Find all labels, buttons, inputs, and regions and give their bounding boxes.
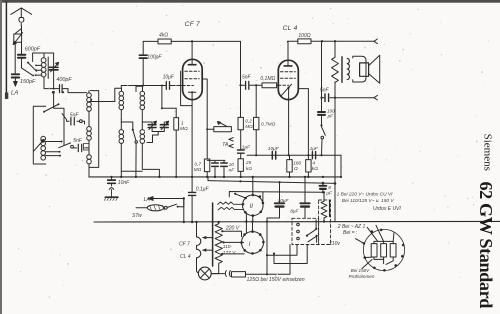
heater bump CL4 <box>197 249 201 258</box>
svg-text:Siemens: Siemens <box>482 134 494 171</box>
svg-text:Prüfstimmen: Prüfstimmen <box>349 274 375 279</box>
resistor 0,7MOhm 2 <box>254 117 259 129</box>
svg-text:MΩ: MΩ <box>194 167 202 173</box>
svg-text:MΩ: MΩ <box>180 126 188 132</box>
voltage selector dashed box <box>292 218 319 244</box>
coil 2 loops a <box>119 91 124 96</box>
heater bump CF7 <box>197 237 201 246</box>
svg-text:10μF: 10μF <box>278 198 290 204</box>
tap arrow upper <box>206 237 213 239</box>
svg-text:pF: pF <box>327 114 335 119</box>
socket II pins <box>242 194 265 217</box>
wire antenna split <box>15 26 21 34</box>
decouple wire bus to line <box>191 177 193 222</box>
svg-text:10: 10 <box>229 162 235 168</box>
lamp feed wire <box>211 245 290 275</box>
junction dots top <box>321 40 323 42</box>
primary shunt resistor <box>334 41 336 57</box>
scan top bar <box>0 0 500 3</box>
TA jack 1 <box>229 138 233 141</box>
tie line coil bottoms <box>121 170 142 172</box>
arrester arrow <box>13 33 22 45</box>
antenna coil <box>43 53 45 58</box>
capacitor 600pF <box>18 55 26 58</box>
resistor 0,2MOhm <box>238 117 243 129</box>
CF7 cathode lead <box>191 92 193 177</box>
CF7 anode lead <box>191 41 193 64</box>
CL4 beam diagonal <box>281 84 291 95</box>
dc link line D <box>208 181 335 184</box>
wire down from top <box>321 41 323 97</box>
wire LA node down <box>183 199 185 223</box>
svg-text:10nF: 10nF <box>118 180 130 186</box>
speaker terminal bottom <box>374 95 377 100</box>
capacitor 5nF band2 <box>73 147 86 149</box>
svg-text:Ω: Ω <box>294 166 298 172</box>
trimmer 400pF <box>53 53 55 67</box>
grid wire to CF7 <box>121 85 163 87</box>
svg-text:110v: 110v <box>329 241 340 247</box>
selector contacts <box>297 223 300 226</box>
top wire A2 <box>311 40 374 42</box>
socket lever left <box>355 239 364 244</box>
coil 1 loops a <box>87 93 92 98</box>
antenna socket LA <box>158 198 184 200</box>
coil 3 stem <box>142 110 152 122</box>
svg-text:62 GW Standard: 62 GW Standard <box>476 182 496 309</box>
electrolytic 10uF <box>267 182 280 274</box>
scan fold blob <box>5 93 8 100</box>
wire 5nF to coil1 <box>87 147 90 149</box>
svg-text:100pF: 100pF <box>147 54 162 60</box>
resistor 0,1MOhm grid <box>262 83 277 88</box>
svg-text:600pF: 600pF <box>25 46 41 52</box>
resistor 0,7M cathode <box>204 159 209 172</box>
socket I top lead <box>252 222 254 232</box>
svg-text:0,2: 0,2 <box>245 119 252 125</box>
socket II circle <box>243 195 264 216</box>
svg-text:Bei 150V: Bei 150V <box>351 268 371 273</box>
CF7 grids dashed <box>185 70 199 72</box>
svg-text:125Ω bei 150V einsetzen: 125Ω bei 150V einsetzen <box>247 277 305 283</box>
svg-text:5nF: 5nF <box>242 75 252 81</box>
svg-text:180: 180 <box>293 161 301 167</box>
ground symbol <box>105 196 118 198</box>
socket top bar <box>374 241 393 243</box>
svg-text:0,7MΩ: 0,7MΩ <box>261 122 276 128</box>
feedback chain 100pF <box>321 98 323 112</box>
svg-text:4: 4 <box>312 161 315 167</box>
CF7 cathode <box>188 91 196 93</box>
band switch lever mid <box>59 143 71 148</box>
scan fold line left <box>5 2 7 96</box>
svg-text:Bei = :: Bei = : <box>343 230 358 236</box>
tube CL4 envelope <box>278 60 298 99</box>
socket pins <box>363 229 405 272</box>
wire trimmer to detector <box>53 70 55 89</box>
trimmer cap A <box>148 125 156 128</box>
capacitor 10uF electrolytic <box>272 151 275 159</box>
svg-text:150pF: 150pF <box>20 79 36 85</box>
coil bottom connect wire <box>44 78 54 89</box>
svg-text:TA: TA <box>222 142 229 148</box>
drop wire from top <box>240 41 242 85</box>
chassis bus <box>89 176 341 178</box>
CL4 grids dashed <box>281 71 296 73</box>
svg-text:LA: LA <box>144 197 151 203</box>
resistor 100 Ohm <box>298 39 311 44</box>
CF7 grid lead <box>183 85 194 87</box>
long line mains <box>94 220 500 223</box>
svg-text:LA: LA <box>11 91 18 97</box>
antenna <box>11 8 32 18</box>
socket I circle <box>242 232 264 254</box>
capacitor 5nF band1 <box>62 114 79 122</box>
terminal arrow LA <box>14 78 16 82</box>
tuning coil arrow <box>34 140 44 151</box>
coil 3 stems b <box>142 122 159 177</box>
top wire A1 <box>143 40 240 42</box>
dial lamp <box>198 267 211 280</box>
coil 3 outline <box>136 86 143 91</box>
band switch lever 3 <box>45 105 59 112</box>
line E <box>229 192 323 197</box>
coil 3 loops b <box>140 130 145 135</box>
wire bottom speaker line <box>322 97 375 99</box>
capacitor 0,1uF <box>189 192 196 195</box>
urdox resistor <box>323 192 325 201</box>
svg-text:10μF: 10μF <box>163 74 175 80</box>
coil assembly 1 outline <box>89 91 99 177</box>
capacitor 150pF <box>12 74 20 77</box>
secondary loop outline <box>353 56 366 82</box>
avc tap <box>162 86 176 109</box>
agc chain vertical <box>240 85 242 117</box>
svg-text:Urdox E UVI: Urdox E UVI <box>373 206 401 212</box>
coil 1 loops b <box>87 127 92 132</box>
dropper tap 220V <box>221 230 223 232</box>
capacitor 1uF small <box>238 150 245 153</box>
speaker terminal top <box>374 39 377 44</box>
series resistor box <box>232 272 246 277</box>
svg-text:110-: 110- <box>223 244 233 250</box>
svg-text:Bei 110/125 V~ u. 150 V: Bei 110/125 V~ u. 150 V <box>342 198 395 204</box>
switch lever feedback <box>322 127 326 136</box>
socket II lead squiggles <box>218 202 243 205</box>
misc contact dots <box>52 91 54 93</box>
resistor 4kOhm <box>158 39 171 44</box>
svg-text:8μF: 8μF <box>290 208 299 214</box>
bus junction dots <box>110 176 324 178</box>
coil 1 loops c <box>87 155 92 160</box>
coil 2 outline <box>115 88 122 101</box>
wire below 600pF <box>21 58 23 68</box>
svg-text:1μF: 1μF <box>310 146 319 152</box>
wire vertical 64 <box>54 94 64 145</box>
coil 1 tap <box>89 101 115 103</box>
ground capacitor 10nF <box>111 177 113 197</box>
svg-text:2 Bei ~ AZ 1: 2 Bei ~ AZ 1 <box>337 224 366 230</box>
coil 2 bottom stem <box>120 122 122 177</box>
lamp plug contacts <box>225 271 230 277</box>
STw switch lever <box>167 204 176 207</box>
svg-text:CF 7: CF 7 <box>185 21 200 28</box>
coil 2 stem <box>120 110 122 120</box>
svg-text:5nF: 5nF <box>70 113 80 119</box>
STw fuse body <box>136 207 148 209</box>
speaker box <box>360 63 369 76</box>
svg-text:STw: STw <box>132 213 142 219</box>
leader line <box>362 260 372 269</box>
CF7 anode <box>188 64 196 66</box>
wire to 600pF node <box>33 53 54 62</box>
svg-text:25: 25 <box>245 160 252 166</box>
capacitor 5nF tone <box>325 94 329 102</box>
electrolytic 8uF a <box>304 177 306 218</box>
capacitor 100pF on drop wire <box>142 41 144 85</box>
svg-text:0,1μF: 0,1μF <box>196 186 210 192</box>
capacitor 1uF right <box>312 152 315 159</box>
svg-text:μF: μF <box>325 190 333 196</box>
trimmer cap B <box>160 125 168 128</box>
capacitor on 88.6 wire <box>54 88 68 90</box>
electrolytic 8uF b <box>322 183 324 192</box>
bypass caps pair <box>207 160 225 177</box>
wire right branch <box>21 42 23 54</box>
tuning coil bracket <box>33 106 46 164</box>
tuning coil taps <box>46 142 62 156</box>
switch contact dots <box>27 62 29 64</box>
tuning coil loops <box>41 136 46 141</box>
coil taps <box>36 65 43 75</box>
svg-text:8: 8 <box>328 185 331 191</box>
cathode line wire <box>247 154 341 156</box>
CL4 grid lead <box>278 84 288 86</box>
selector lever 1 <box>307 229 316 235</box>
svg-text:10μF: 10μF <box>268 146 280 152</box>
socket II top lead <box>246 177 252 233</box>
dropper tap 127V <box>222 241 224 243</box>
junction on lamp wire <box>266 273 268 275</box>
coil 1 stem <box>88 91 90 168</box>
wire right end to bus <box>340 155 342 177</box>
svg-text:II: II <box>250 204 254 210</box>
band switch lever antenna <box>22 68 33 75</box>
svg-text:100Ω: 100Ω <box>298 33 310 39</box>
lightning arrester <box>14 34 22 42</box>
primary coil <box>347 58 349 79</box>
coil core <box>47 57 49 79</box>
svg-text:CL 4: CL 4 <box>180 254 191 260</box>
transformer core bar <box>212 203 214 266</box>
CL4 anode lead <box>288 41 298 66</box>
svg-text:4kΩ: 4kΩ <box>159 33 168 39</box>
heater dropper resistor <box>218 222 220 224</box>
svg-text:nF: nF <box>229 167 236 173</box>
urdox side bar <box>329 201 331 217</box>
coil 1 side jog <box>84 144 90 151</box>
selector wires down-left <box>267 245 297 256</box>
CL4 cathode <box>288 87 290 89</box>
svg-text:1 Bei 220 V~ Urdox CU VI: 1 Bei 220 V~ Urdox CU VI <box>337 191 394 197</box>
svg-text:1μF: 1μF <box>242 144 251 150</box>
CF7 side lead left <box>181 71 193 105</box>
svg-text:0,1MΩ: 0,1MΩ <box>260 76 275 82</box>
pot wiper <box>218 122 227 127</box>
svg-text:400pF: 400pF <box>56 77 72 83</box>
resistor 1 MOhm <box>175 108 177 117</box>
svg-text:MΩ: MΩ <box>245 124 253 130</box>
wire to osc coil <box>68 89 87 93</box>
speaker cone <box>369 55 380 83</box>
socket bottom bar <box>374 257 384 264</box>
TA jack 2 <box>229 144 233 147</box>
svg-text:I: I <box>249 242 251 248</box>
switch lever 2 <box>28 63 37 72</box>
coil 3 loops a <box>140 91 145 96</box>
socket top leads <box>367 225 394 241</box>
socket inner lead <box>365 256 374 259</box>
coil 2 loops b <box>119 130 124 135</box>
coil 2 top hook <box>121 120 133 129</box>
coupling cap 10uF <box>164 85 183 87</box>
CF7 screen lead right <box>202 79 207 159</box>
resistor 4kOhm cl4 <box>307 155 309 159</box>
socket resistors <box>371 244 377 257</box>
socket II lever <box>236 194 246 198</box>
wire left branch <box>14 42 16 74</box>
resistor 180 Ohm <box>289 155 291 159</box>
socket I pins <box>240 230 265 254</box>
CL4 screen lead <box>298 89 308 156</box>
capacitor 5nF coupling <box>241 84 263 86</box>
switch lever between coils <box>132 129 134 131</box>
svg-text:127 V: 127 V <box>223 250 236 256</box>
tube CF7 envelope <box>183 59 203 99</box>
svg-text:5nF: 5nF <box>320 88 330 94</box>
scan left gray strip <box>0 0 2 314</box>
tap arrow lower <box>206 249 213 251</box>
svg-text:CF 7: CF 7 <box>179 241 190 247</box>
volume pot <box>214 127 232 132</box>
B+ drop wire <box>334 98 336 222</box>
CL4 anode <box>284 65 292 67</box>
transformer core <box>341 57 343 83</box>
ground arrow <box>109 188 113 190</box>
heater chain wire <box>195 221 197 223</box>
svg-text:CL 4: CL 4 <box>283 25 298 32</box>
grid leak vertical <box>255 84 257 86</box>
trimmer leads <box>147 122 164 143</box>
antenna plug connector <box>19 18 24 27</box>
svg-text:0,7: 0,7 <box>194 161 201 167</box>
resistor 25kOhm <box>238 159 243 172</box>
svg-text:220 V: 220 V <box>225 226 240 232</box>
svg-text:1: 1 <box>181 120 184 126</box>
urdox socket circle <box>363 229 404 270</box>
svg-text:kΩ: kΩ <box>312 166 318 172</box>
svg-text:5nF: 5nF <box>73 138 83 144</box>
